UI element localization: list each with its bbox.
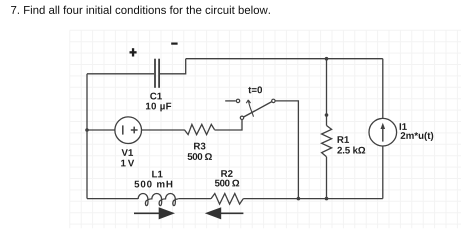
label R3 — [194, 143, 205, 150]
label C1 — [150, 93, 162, 100]
wire V1 left lead — [87, 129, 115, 131]
label 2.5 kOhm — [337, 146, 365, 153]
voltage source V1 body — [115, 117, 142, 144]
label 500 mH — [134, 181, 172, 188]
label 10 uF — [146, 103, 171, 112]
switch SW1 pole terminal — [240, 116, 243, 119]
capacitor C1 plates — [155, 59, 159, 88]
current direction arrow under L1 (points right) — [134, 207, 175, 219]
wire R3 to switch — [215, 119, 243, 130]
junction node: bottom rail to switch branch — [297, 197, 301, 201]
label 2m*u(t) — [401, 132, 434, 141]
wire capacitor right lead and step up — [160, 59, 186, 74]
wire current source top lead — [382, 59, 384, 119]
junction node on R1 top lead — [325, 113, 329, 117]
switch actuation arrow head — [246, 100, 250, 103]
label 1 V — [121, 160, 134, 167]
label plus (capacitor polarity) — [130, 48, 137, 56]
label 500 ohm R2 — [215, 180, 239, 187]
label R1 — [338, 136, 349, 143]
V1 minus terminal bar — [122, 125, 124, 134]
switch SW1 open-contact stub wire — [225, 100, 236, 102]
label V1 — [122, 149, 134, 156]
wire R1 bottom lead — [326, 157, 328, 199]
wire V1 right lead to R3 — [142, 129, 185, 131]
switch SW1 open contact terminal — [236, 99, 239, 102]
label 500 ohm R3 — [188, 153, 212, 160]
wire bottom rail — [87, 198, 383, 200]
current source I1 body — [369, 118, 397, 146]
I1 arrow shaft — [382, 127, 384, 142]
V1 plus sign — [131, 127, 138, 134]
wire switch right lead down to bottom rail — [275, 101, 298, 199]
junction node: top rail to R1 branch — [325, 57, 329, 61]
label minus (capacitor polarity) — [171, 43, 177, 45]
title text — [11, 6, 270, 14]
label I1 — [400, 123, 407, 130]
resistor R1 — [322, 126, 332, 157]
wire current source bottom lead — [382, 146, 384, 199]
junction node: left rail to V1 branch — [85, 128, 89, 132]
label R2 — [221, 170, 232, 177]
inductor L1 coil — [138, 194, 178, 206]
resistor R3 — [184, 124, 214, 134]
label t=0 — [248, 86, 262, 93]
wire left vertical — [86, 74, 88, 199]
junction node: bottom rail to R1 branch — [325, 197, 329, 201]
wire top rail — [186, 58, 383, 60]
switch actuation arrow shaft (t=0) — [248, 100, 253, 117]
resistor R2 — [211, 194, 243, 205]
wire R1 top lead — [326, 59, 328, 126]
I1 arrow head — [381, 123, 386, 129]
switch SW1 blade — [244, 102, 272, 117]
wire top-left to capacitor — [87, 73, 154, 75]
switch SW1 closed contact terminal — [272, 99, 275, 102]
current direction arrow under R2 (points left) — [205, 207, 244, 219]
label L1 — [152, 171, 162, 178]
